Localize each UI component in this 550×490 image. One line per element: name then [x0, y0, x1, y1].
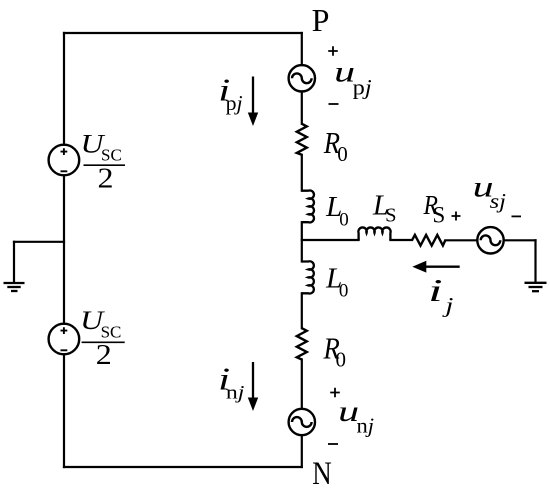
AC source U1 u_pj: [289, 65, 315, 91]
svg-text:nj: nj: [226, 382, 245, 403]
svg-text:0: 0: [337, 142, 348, 166]
inductor L0 lower: [302, 261, 314, 293]
svg-text:pj: pj: [226, 91, 243, 115]
svg-text:0: 0: [339, 209, 349, 230]
wire L_S to R_S: [390, 239, 412, 241]
label U_SC/2 lower: [80, 306, 125, 371]
label U_SC/2 upper: [81, 130, 126, 195]
svg-text:S: S: [385, 205, 396, 227]
wire R_S to u_sj: [445, 239, 477, 241]
current arrow i_nj: [248, 362, 258, 411]
wire right corner down to ground: [534, 240, 536, 282]
AC source U2 u_nj: [289, 409, 315, 435]
svg-text:N: N: [312, 456, 332, 490]
wire u_pj to R0: [301, 92, 303, 124]
wire u_nj to N: [301, 435, 303, 467]
AC source U3 u_sj: [477, 227, 503, 253]
wire top horizontal P rail: [64, 32, 302, 34]
label u_pj with polarity: [328, 46, 372, 104]
wire ground branch vertical: [13, 242, 15, 283]
polarity + for u_sj: [452, 212, 461, 221]
wire ground branch horizontal: [14, 241, 64, 243]
polarity - for u_sj: [512, 215, 522, 217]
svg-text:0: 0: [339, 280, 349, 301]
ground right: [525, 283, 547, 291]
wire u_sj to right corner: [504, 239, 536, 241]
svg-text:SC: SC: [101, 323, 122, 342]
ground left: [4, 283, 25, 291]
voltage source E1 upper U_SC/2: [49, 145, 80, 176]
wire right branch top (P to u_pj): [301, 33, 303, 65]
svg-text:0: 0: [336, 348, 347, 372]
wire lower R0 to u_nj: [301, 360, 303, 409]
wire junction to lower L0 (node): [302, 239, 359, 241]
svg-text:nj: nj: [357, 413, 375, 437]
resistor R0 lower: [297, 328, 307, 359]
svg-text:SC: SC: [101, 146, 122, 165]
inductor L0 upper: [302, 190, 314, 222]
svg-text:S: S: [433, 203, 446, 228]
resistor R0 upper: [297, 124, 307, 155]
svg-text:pj: pj: [353, 75, 372, 100]
wire bottom horizontal N rail: [64, 466, 302, 468]
wire left vertical upper segment: [63, 33, 65, 145]
svg-text:i: i: [428, 272, 443, 308]
label u_nj with polarity: [328, 388, 374, 444]
wire lower L0 to lower R0: [301, 293, 303, 328]
svg-text:sj: sj: [490, 189, 507, 213]
wire R0 to L0: [301, 155, 303, 191]
inductor L_S: [358, 227, 390, 240]
resistor R_S: [412, 235, 445, 246]
voltage source E2 lower U_SC/2: [49, 324, 80, 355]
svg-text:P: P: [312, 2, 330, 38]
wire L0 to junction: [301, 222, 303, 261]
wire left vertical middle segment: [63, 175, 65, 323]
svg-text:2: 2: [96, 340, 112, 371]
svg-text:2: 2: [98, 163, 114, 194]
current arrow i_j: [412, 261, 459, 273]
wire left vertical lower segment: [63, 354, 65, 467]
current arrow i_pj: [248, 77, 258, 127]
